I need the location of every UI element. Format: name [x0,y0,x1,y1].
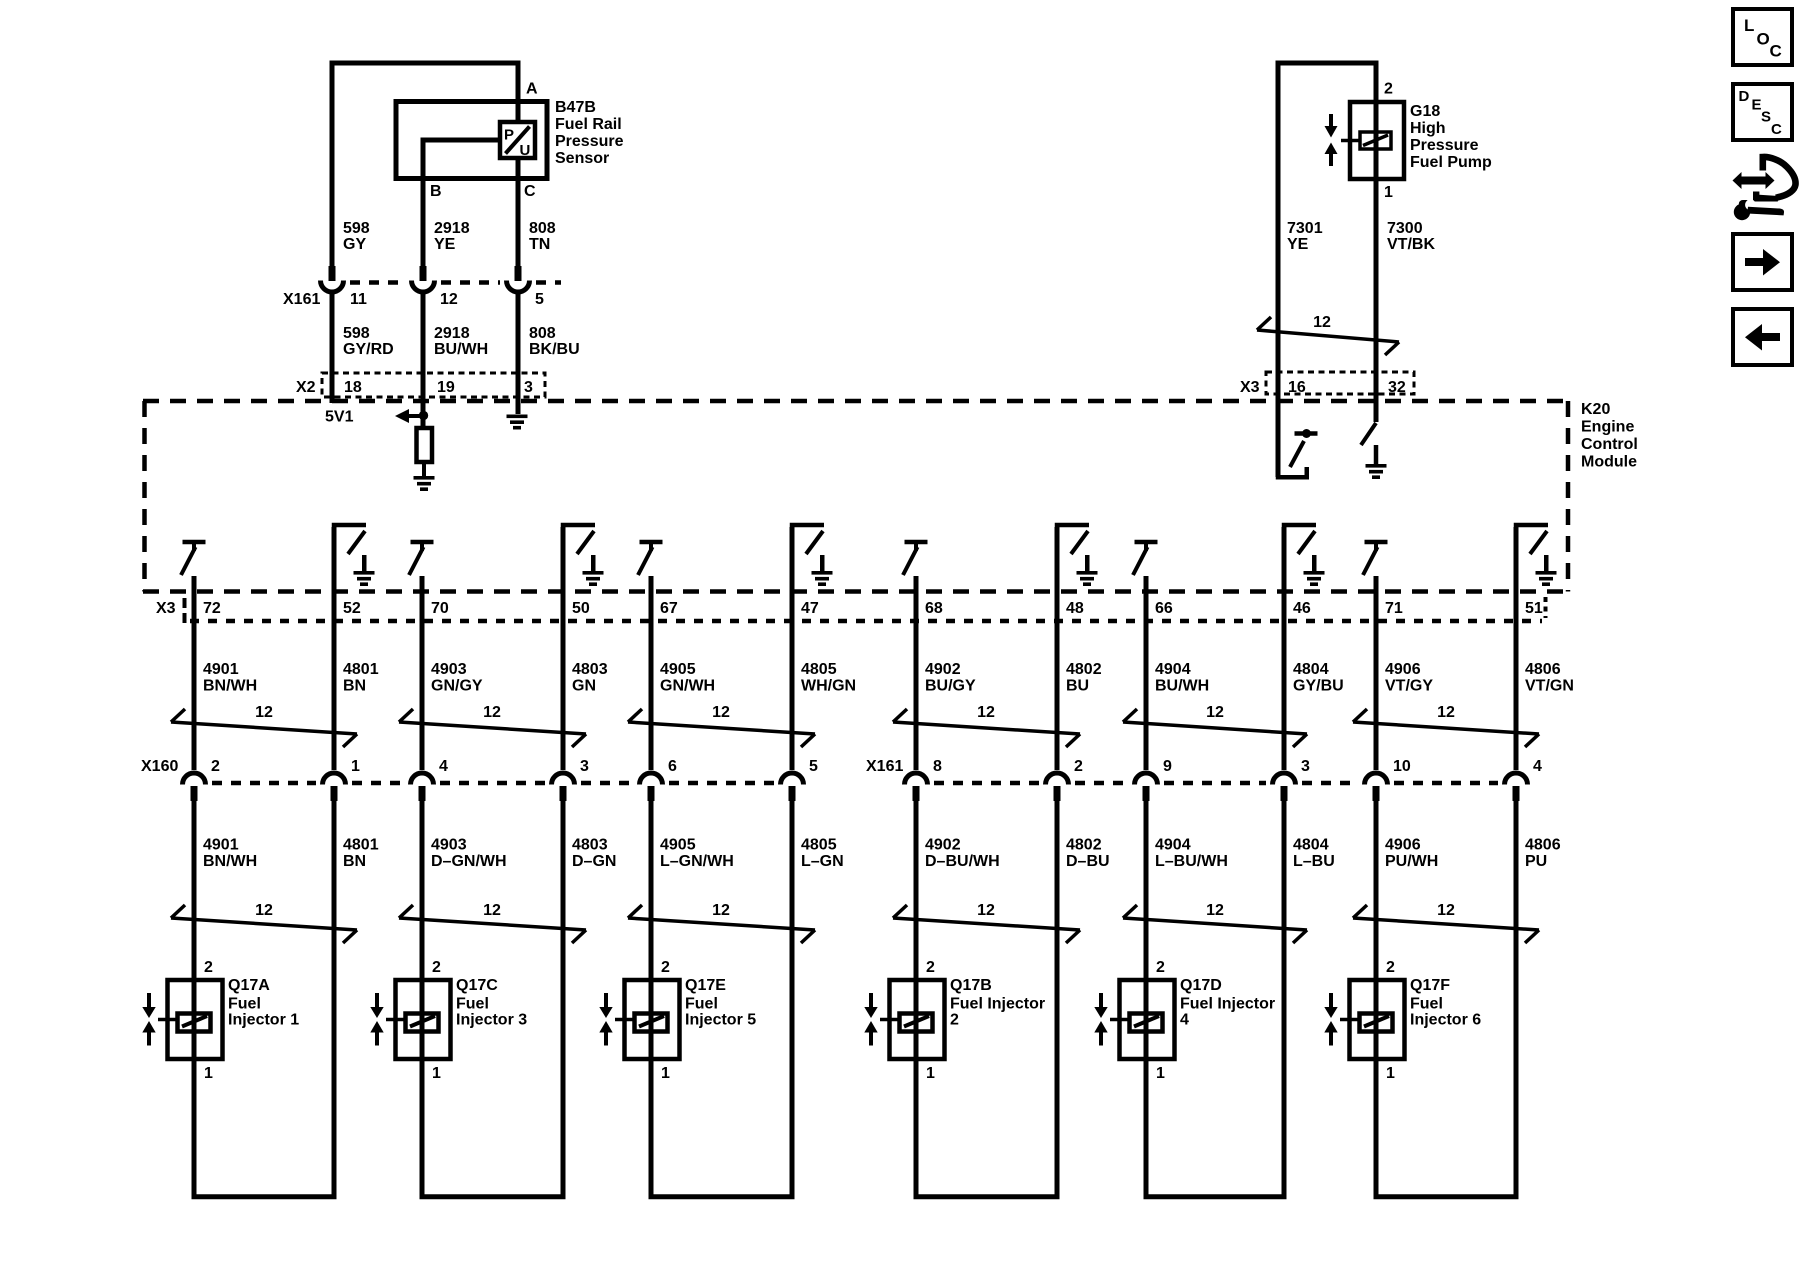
injector Q17C pin 1 [432,1065,441,1082]
twisted pair symbol 12 (4906/4806 upper) [1353,704,1539,747]
svg-text:12: 12 [440,291,458,308]
svg-text:Fuel: Fuel [1410,996,1443,1013]
svg-text:2: 2 [204,959,213,976]
svg-text:Q17F: Q17F [1410,977,1450,994]
fuel injector Q17F box [1350,980,1405,1059]
wire 4906 inside ECM [1374,576,1379,621]
svg-text:4806: 4806 [1525,837,1561,854]
svg-text:48: 48 [1066,600,1084,617]
svg-text:2: 2 [1386,959,1395,976]
component label Q17C Fuel Injector 3 [456,977,527,1029]
wire 4903 inside ECM [420,576,425,621]
wire 4805 L–GN [790,801,795,1196]
svg-text:3: 3 [580,758,589,775]
svg-text:7300: 7300 [1387,220,1423,237]
svg-text:E: E [1752,97,1762,114]
label 4805 WH/GN [801,661,856,695]
injector Q17F pin 2 [1386,959,1395,976]
wire 4806 VT/GN [1514,621,1519,770]
twisted pair symbol 12 (4905/4805 upper) [628,704,815,747]
svg-text:B47B: B47B [555,99,596,116]
svg-text:Pressure: Pressure [1410,137,1479,154]
pump valve arrows [1325,114,1338,166]
injector Q17F pin 1 [1386,1065,1395,1082]
svg-text:1: 1 [204,1065,213,1082]
svg-text:Fuel Rail: Fuel Rail [555,116,622,133]
svg-text:K20: K20 [1581,401,1610,418]
svg-text:Injector 1: Injector 1 [228,1012,299,1029]
wire - injector Q17C return loop [420,1194,566,1199]
svg-text:X2: X2 [296,379,316,396]
svg-text:Q17A: Q17A [228,977,270,994]
svg-text:598: 598 [343,325,370,342]
ECM driver switch for pump (pin 16) [1276,429,1318,480]
ECM return hook and ground (pin 52) [332,523,375,586]
svg-text:Fuel Injector: Fuel Injector [1180,996,1275,1013]
label 4803 D–GN [572,837,616,871]
svg-text:GN/GY: GN/GY [431,678,483,695]
svg-text:X161: X161 [866,758,903,775]
svg-text:2: 2 [1384,81,1393,98]
injector Q17D pin 2 [1156,959,1165,976]
label 4802 BU [1066,661,1102,695]
ECM low-side driver switch (pin 70) [409,540,434,575]
svg-text:68: 68 [925,600,943,617]
connector X161 terminal pin 4 [1505,773,1528,801]
svg-text:72: 72 [203,600,221,617]
pin letter C [524,183,536,200]
svg-text:5: 5 [535,291,544,308]
wire 4906 PU/WH [1374,801,1379,1196]
ECM low-side driver switch (pin 68) [903,540,928,575]
injector Q17A pin 1 [204,1065,213,1082]
svg-text:C: C [524,183,536,200]
X3 bottom pin numbers [203,600,1543,617]
svg-text:4902: 4902 [925,837,961,854]
connector X160 terminal pin 2 [183,773,206,801]
wire 4804 GY/BU [1282,621,1287,770]
label 4904 L–BU/WH [1155,837,1228,871]
svg-text:5: 5 [809,758,818,775]
svg-text:5V1: 5V1 [325,409,354,426]
label 5V1 [325,409,354,426]
svg-text:3: 3 [524,379,533,396]
svg-text:32: 32 [1388,379,1406,396]
wire 4806 inside ECM [1514,527,1519,621]
svg-text:Injector 3: Injector 3 [456,1012,527,1029]
wire - top feed from ECM 5V to sensor pin A [330,61,521,267]
fuel injector Q17C box [396,980,451,1059]
svg-text:47: 47 [801,600,819,617]
wire - injector Q17A return loop [192,1194,337,1199]
fuel injector Q17E box [625,980,680,1059]
svg-text:Q17C: Q17C [456,977,498,994]
wire - injector Q17E return loop [649,1194,795,1199]
svg-text:L: L [1744,16,1754,35]
label 4806 VT/GN [1525,661,1574,695]
wire 4904 L–BU/WH [1144,801,1149,1196]
wire 4801 inside ECM [332,527,337,621]
wire 4903 D–GN/WH [420,801,425,1196]
svg-text:4904: 4904 [1155,837,1191,854]
svg-text:BU/WH: BU/WH [434,341,488,358]
svg-text:9: 9 [1163,758,1172,775]
svg-text:16: 16 [1288,379,1306,396]
svg-text:BU/WH: BU/WH [1155,678,1209,695]
injector Q17C solenoid symbol [386,1014,439,1032]
wire 4804 inside ECM [1282,527,1287,621]
svg-text:VT/BK: VT/BK [1387,236,1435,253]
ECM return hook and ground (pin 48) [1055,523,1098,586]
ECM return hook and ground (pin 51) [1514,523,1557,586]
svg-text:BN: BN [343,678,366,695]
svg-text:2: 2 [661,959,670,976]
svg-text:1: 1 [661,1065,670,1082]
svg-text:4803: 4803 [572,837,608,854]
svg-text:BU: BU [1066,678,1089,695]
svg-text:Fuel Injector: Fuel Injector [950,996,1045,1013]
component label Q17F Fuel Injector 6 [1410,977,1481,1029]
label X2 and pins 18 19 3 [296,379,533,396]
svg-text:4801: 4801 [343,661,379,678]
component label Q17B Fuel Injector 2 [950,977,1045,1029]
svg-text:1: 1 [351,758,360,775]
svg-text:Control: Control [1581,436,1638,453]
icon wiring repair (arrow and wrench) [1733,157,1796,220]
svg-text:GN/WH: GN/WH [660,678,715,695]
svg-text:YE: YE [1287,236,1309,253]
wire A vertical into sensor [516,63,521,122]
wire B horizontal from P/U [421,138,501,143]
svg-text:Module: Module [1581,454,1637,471]
svg-text:4903: 4903 [431,837,467,854]
svg-text:X3: X3 [156,600,176,617]
svg-text:PU/WH: PU/WH [1385,853,1438,870]
label 4805 L–GN [801,837,844,871]
svg-text:12: 12 [1206,902,1224,919]
twisted pair symbol 12 (4902/4802 upper) [893,704,1080,747]
svg-text:4803: 4803 [572,661,608,678]
wire 4803 GN [561,621,566,770]
svg-text:67: 67 [660,600,678,617]
svg-text:Pressure: Pressure [555,133,624,150]
svg-text:12: 12 [1437,902,1455,919]
connector X3 (bottom) dotted row [185,597,1546,625]
svg-text:52: 52 [343,600,361,617]
svg-text:12: 12 [255,704,273,721]
svg-text:VT/GN: VT/GN [1525,678,1574,695]
svg-text:Fuel: Fuel [228,996,261,1013]
ground (internal, 808 wire) [507,415,528,430]
label 4804 L–BU [1293,837,1335,871]
pin number 1 (pump) [1384,184,1393,201]
wire 4902 BU/GY [914,621,919,770]
wire 4803 inside ECM [561,527,566,621]
label X3 (bottom) [156,600,176,617]
svg-text:12: 12 [977,704,995,721]
pin letter A [526,81,538,98]
svg-text:4802: 4802 [1066,661,1102,678]
ECM return hook and ground (pin 47) [790,523,833,586]
icon LOC box [1733,9,1792,65]
connector X161 terminal pin 8 [905,773,928,801]
connector X160/X161 dashed row [212,781,1498,786]
connector X161 terminal pin 2 [1046,773,1069,801]
svg-text:4804: 4804 [1293,661,1329,678]
component label Q17D Fuel Injector 4 [1180,977,1275,1029]
svg-text:4902: 4902 [925,661,961,678]
label 2918 YE [434,220,470,253]
label 4902 BU/GY [925,661,976,695]
svg-text:4: 4 [1180,1012,1189,1029]
svg-text:1: 1 [1386,1065,1395,1082]
wire 7301 YE vertical [1276,63,1281,477]
svg-text:2918: 2918 [434,325,470,342]
connector X161 terminal pin 9 [1135,773,1158,801]
fuel injector Q17A box [168,980,223,1059]
svg-text:4805: 4805 [801,661,837,678]
label 4902 D–BU/WH [925,837,1000,871]
svg-text:P: P [504,127,514,144]
wire 4906 VT/GY [1374,621,1379,770]
svg-text:Injector 6: Injector 6 [1410,1012,1481,1029]
wire 4806 PU [1514,801,1519,1196]
svg-text:2: 2 [1156,959,1165,976]
icon forward arrow box [1733,234,1792,290]
svg-text:12: 12 [483,902,501,919]
svg-text:12: 12 [1206,704,1224,721]
ECM low-side driver switch (pin 66) [1133,540,1158,575]
label 4801 BN [343,661,379,695]
svg-text:2: 2 [950,1012,959,1029]
P/U transducer box inside sensor [500,122,535,159]
svg-text:WH/GN: WH/GN [801,678,856,695]
ECM switch contact (pin 32) and ground [1361,423,1387,479]
wire - injector Q17F return loop [1374,1194,1519,1199]
injector Q17B pin 2 [926,959,935,976]
twisted pair symbol 12 (pump wires) [1257,314,1399,355]
svg-text:BN/WH: BN/WH [203,853,257,870]
svg-text:70: 70 [431,600,449,617]
svg-text:808: 808 [529,220,556,237]
wire - injector Q17B return loop [914,1194,1060,1199]
svg-text:4904: 4904 [1155,661,1191,678]
svg-text:TN: TN [529,236,550,253]
label 4905 L–GN/WH [660,837,734,871]
icon DESC box [1733,84,1792,140]
svg-text:U: U [520,142,531,159]
twisted pair symbol 12 (4905/4805 lower) [628,902,815,943]
twisted pair symbol 12 (4901/4801 lower) [171,902,357,943]
svg-text:GY/BU: GY/BU [1293,678,1344,695]
svg-text:D–GN/WH: D–GN/WH [431,853,507,870]
svg-text:10: 10 [1393,758,1411,775]
svg-text:4905: 4905 [660,837,696,854]
wire 808 BK/BU below X161 [516,292,521,414]
wire 4805 inside ECM [790,527,795,621]
connector X161 terminal pin 3 [1273,773,1296,801]
svg-text:1: 1 [1156,1065,1165,1082]
svg-text:12: 12 [1313,314,1331,331]
ground (internal, below resistor) [414,476,435,491]
svg-text:X3: X3 [1240,379,1260,396]
svg-text:L–BU/WH: L–BU/WH [1155,853,1228,870]
wire 4802 D–BU [1055,801,1060,1196]
injector Q17A pin 2 [204,959,213,976]
svg-text:4901: 4901 [203,661,239,678]
svg-text:12: 12 [712,902,730,919]
svg-text:6: 6 [668,758,677,775]
label 4804 GY/BU [1293,661,1344,695]
svg-text:1: 1 [926,1065,935,1082]
svg-text:2: 2 [211,758,220,775]
svg-text:VT/GY: VT/GY [1385,678,1433,695]
fuel pump G18 box [1350,102,1404,179]
twisted pair symbol 12 (4906/4806 lower) [1353,902,1539,943]
connector X160 terminal pin 1 [323,773,346,801]
ECM return hook and ground (pin 50) [561,523,604,586]
fuel injector Q17D box [1120,980,1175,1059]
svg-text:S: S [1761,109,1771,126]
ECM low-side driver switch (pin 72) [181,540,206,575]
K20 Engine Control Module dashed box [143,401,1570,592]
svg-text:Q17B: Q17B [950,977,992,994]
connector X160 terminal pin 3 [552,773,575,801]
junction arrow on 2918 (5V ref) [395,409,428,423]
svg-text:50: 50 [572,600,590,617]
wire 7300 VT/BK vertical [1374,63,1379,422]
wire 4901 BN/WH [192,801,197,1196]
wire below resistor [422,462,426,476]
svg-text:3: 3 [1301,758,1310,775]
label 7301 YE [1287,220,1323,253]
connector X161 terminal pin 10 [1365,773,1388,801]
pin letter B [430,183,442,200]
wire 4904 BU/WH [1144,621,1149,770]
twisted pair symbol 12 (4904/4804 upper) [1123,704,1307,747]
wire 4801 BN [332,621,337,770]
label 4906 VT/GY [1385,661,1433,695]
svg-text:C: C [1770,42,1782,61]
svg-text:2918: 2918 [434,220,470,237]
svg-text:12: 12 [977,902,995,919]
svg-text:7301: 7301 [1287,220,1323,237]
pump solenoid coil symbol [1341,132,1391,149]
svg-text:D–BU/WH: D–BU/WH [925,853,1000,870]
label 4901 BN/WH [203,837,257,871]
svg-text:12: 12 [1437,704,1455,721]
svg-text:O: O [1757,30,1770,49]
wire 4805 WH/GN [790,621,795,770]
wire 4801 BN [332,801,337,1196]
svg-text:12: 12 [483,704,501,721]
label 4903 D–GN/WH [431,837,507,871]
injector Q17A valve arrows [142,993,155,1046]
injector Q17D pin 1 [1156,1065,1165,1082]
injector Q17E pin 2 [661,959,670,976]
injector Q17B pin 1 [926,1065,935,1082]
label 4802 D–BU [1066,837,1110,871]
svg-text:598: 598 [343,220,370,237]
wire 4902 D–BU/WH [914,801,919,1196]
injector Q17C pin 2 [432,959,441,976]
label X3 and pins 16 32 [1240,379,1406,396]
svg-text:12: 12 [255,902,273,919]
svg-text:GY: GY [343,236,366,253]
wire 4802 BU [1055,621,1060,770]
svg-text:C: C [1771,121,1782,138]
svg-text:High: High [1410,120,1446,137]
label X161 (injector harness) [866,758,903,775]
svg-text:L–GN: L–GN [801,853,844,870]
svg-text:Sensor: Sensor [555,150,609,167]
svg-text:4802: 4802 [1066,837,1102,854]
connector X161 (sensor) dashed row [350,280,561,285]
twisted pair symbol 12 (4903/4803 lower) [399,902,586,943]
ECM low-side driver switch (pin 71) [1363,540,1388,575]
connector X160 terminal pin 4 [411,773,434,801]
svg-text:4903: 4903 [431,661,467,678]
connector X160 terminal pin 6 [640,773,663,801]
injector Q17C valve arrows [370,993,383,1046]
svg-text:X161: X161 [283,291,320,308]
connector X160 terminal pin 5 [781,773,804,801]
wire 598 GY/RD below X161 [330,292,335,403]
wire 4905 inside ECM [649,576,654,621]
wire 4804 L–BU [1282,801,1287,1196]
connector X2 dashed box [322,373,545,397]
fuel injector Q17B box [890,980,945,1059]
svg-text:GN: GN [572,678,596,695]
wire - pump feed top [1276,61,1379,66]
label 4901 BN/WH [203,661,257,695]
svg-text:4906: 4906 [1385,661,1421,678]
svg-text:BN/WH: BN/WH [203,678,257,695]
connector X161 terminal pin 5 [507,266,530,292]
injector Q17B valve arrows [864,993,877,1046]
label 598 GY [343,220,370,253]
wire 4905 L–GN/WH [649,801,654,1196]
twisted pair symbol 12 (4901/4801 upper) [171,704,357,747]
injector Q17F solenoid symbol [1340,1014,1393,1032]
wire 808 TN vertical (sensor C) [516,158,521,266]
label 4904 BU/WH [1155,661,1209,695]
twisted pair symbol 12 (4904/4804 lower) [1123,902,1307,943]
svg-text:4: 4 [439,758,448,775]
svg-text:BN: BN [343,853,366,870]
label 808 BK/BU [529,325,580,358]
svg-text:D–GN: D–GN [572,853,616,870]
pin number 2 (pump) [1384,81,1393,98]
injector Q17A solenoid symbol [158,1014,211,1032]
wire 4902 inside ECM [914,576,919,621]
connector X161 terminal pin 12 [412,266,435,292]
label 7300 VT/BK [1387,220,1435,253]
wire 4803 D–GN [561,801,566,1196]
injector Q17D valve arrows [1094,993,1107,1046]
svg-text:11: 11 [350,291,367,308]
svg-text:19: 19 [437,379,455,396]
wire 4903 GN/GY [420,621,425,770]
svg-text:2: 2 [1074,758,1083,775]
component label Q17A Fuel Injector 1 [228,977,299,1029]
svg-text:G18: G18 [1410,103,1440,120]
svg-text:66: 66 [1155,600,1173,617]
wire 2918 YE vertical (sensor B) [421,138,426,267]
svg-text:D–BU: D–BU [1066,853,1110,870]
injector Q17E solenoid symbol [615,1014,668,1032]
label 4806 PU [1525,837,1561,871]
